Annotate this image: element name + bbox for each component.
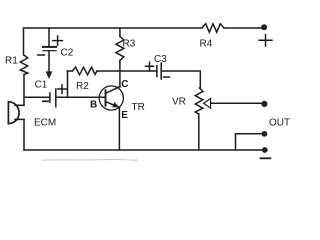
transistor Q TR circle [99, 86, 123, 110]
node ground rail end terminal dot [262, 147, 268, 153]
resistor R1 [20, 55, 27, 75]
wire VR bottom to ground rail [198, 114, 200, 150]
svg-text:OUT: OUT [269, 118, 290, 129]
wire R2 right to collector node to C3 [97, 70, 157, 72]
wire R2 left branch vertical [67, 71, 69, 97]
plus sign C1 polarity [58, 85, 66, 93]
capacitor C2 bottom lead with arrow [48, 51, 50, 72]
wire emitter to ground rail [118, 107, 120, 150]
svg-text:ECM: ECM [34, 118, 56, 129]
wire R2 left stub [68, 70, 73, 72]
wire R3 bottom to collector [119, 61, 121, 88]
wire bottom ground rail [24, 149, 263, 151]
node output ground terminal dot [262, 131, 268, 137]
wire top rail right segment [224, 27, 262, 29]
transistor TR base bar [105, 90, 107, 105]
resistor R2 [73, 67, 98, 75]
capacitor C2 top lead [48, 28, 50, 46]
capacitor C3 plates [156, 66, 158, 77]
minus sign C1 polarity [43, 100, 48, 102]
plus sign C2 polarity [53, 36, 63, 45]
svg-text:R1: R1 [5, 56, 18, 67]
transistor TR emitter lead [106, 102, 120, 108]
wire C3 to VR top [161, 71, 200, 88]
ECM top terminal stub [15, 104, 24, 106]
capacitor C2 plates [43, 46, 56, 48]
minus sign C2 polarity [38, 54, 45, 56]
svg-text:R4: R4 [200, 39, 213, 50]
potentiometer VR resistor body [195, 88, 203, 114]
plus sign C3 polarity [146, 62, 154, 70]
svg-text:R2: R2 [76, 81, 89, 92]
svg-text:E: E [121, 110, 128, 121]
svg-text:VR: VR [172, 97, 186, 108]
wire top rail left segment [24, 27, 203, 29]
wire wiper to output terminal [211, 102, 262, 104]
plus sign supply polarity [259, 35, 272, 47]
minus sign C3 polarity [164, 76, 170, 78]
wire R3 top lead from rail [119, 28, 121, 37]
wire base line C1 to transistor base [56, 96, 106, 98]
svg-text:R3: R3 [123, 39, 136, 50]
transistor TR collector lead [106, 87, 120, 94]
wire output ground branch [236, 134, 263, 150]
svg-text:C1: C1 [35, 80, 48, 91]
minus sign output polarity [261, 157, 271, 159]
capacitor C1 plates [49, 93, 51, 102]
ECM microphone body [7, 102, 9, 124]
resistor R4 [202, 24, 224, 32]
svg-text:C3: C3 [154, 54, 167, 65]
node V+ terminal dot [261, 24, 267, 30]
svg-text:C: C [121, 79, 128, 90]
transistor TR emitter arrow [112, 102, 119, 107]
potentiometer VR wiper arrow [204, 99, 211, 109]
svg-text:C2: C2 [61, 48, 74, 59]
svg-text:TR: TR [132, 102, 145, 113]
resistor R3 [116, 37, 124, 61]
wire left vertical from rail to R1 [23, 28, 25, 55]
node output signal terminal dot [261, 101, 267, 107]
wire ECM bottom to ground rail [23, 119, 25, 150]
wire R1 bottom to ECM junction [23, 75, 25, 106]
ECM bottom terminal stub [15, 118, 24, 120]
svg-text:B: B [90, 100, 97, 111]
capacitor C1 input wire from node [24, 96, 50, 98]
